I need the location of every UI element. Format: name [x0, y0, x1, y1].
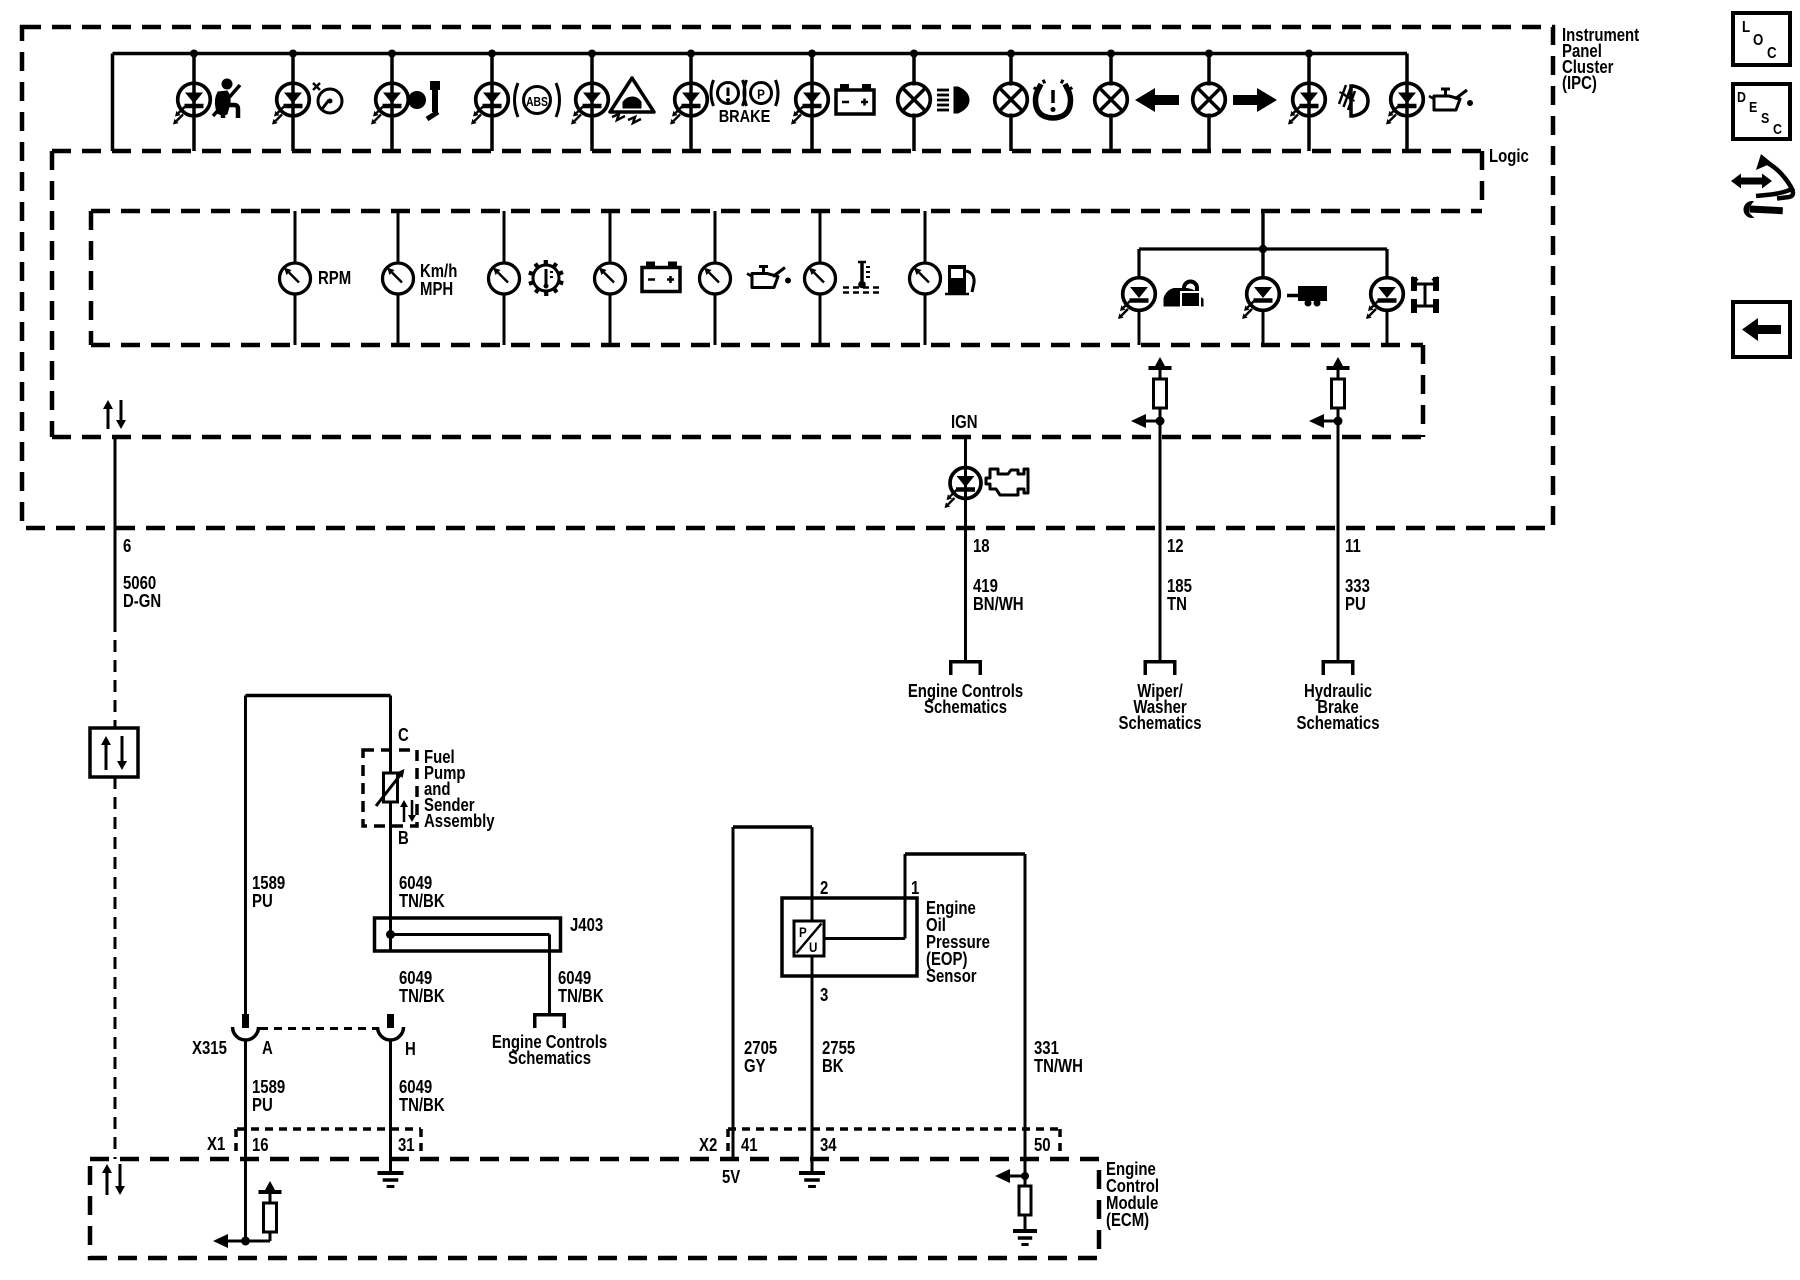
- wire: circuit 2705 GY: [732, 827, 735, 1159]
- svg-text:3: 3: [820, 985, 828, 1006]
- wire: 1589 PU to ECM pin 16: [244, 1041, 247, 1241]
- svg-text:C: C: [398, 725, 409, 746]
- node: pin 50 internal junction with left arrow: [995, 1169, 1029, 1183]
- lamp: right turn indicator bulb: [1193, 50, 1277, 152]
- ECM connector X2 dashed outline: [728, 1129, 1060, 1153]
- engine oil pressure (EOP) sensor box: [782, 898, 917, 976]
- resistor: ECM pull-up on pin 16: [259, 1181, 282, 1241]
- svg-text:1: 1: [911, 878, 919, 899]
- svg-text:12: 12: [1167, 536, 1184, 557]
- variable resistor: fuel level sender: [376, 750, 405, 826]
- svg-text:Sensor: Sensor: [926, 966, 977, 987]
- svg-text:IGN: IGN: [951, 412, 978, 433]
- LOC navigation box: [1733, 13, 1790, 65]
- wire: pin 11 circuit 333 PU: [1337, 421, 1340, 660]
- svg-text:TN/WH: TN/WH: [1034, 1056, 1083, 1077]
- svg-text:TN/BK: TN/BK: [399, 891, 445, 912]
- gauge: voltmeter (battery) gauge: [595, 211, 681, 345]
- svg-text:B: B: [398, 828, 409, 849]
- gauge: oil pressure gauge: [700, 211, 792, 345]
- DESC navigation box: [1733, 84, 1790, 139]
- wire: circuit 1589 PU (left leg): [244, 696, 247, 1015]
- svg-text:31: 31: [398, 1135, 415, 1156]
- wire: dashed continuation of circuit 5060: [114, 620, 117, 728]
- svg-text:A: A: [262, 1038, 273, 1059]
- off-page connector bracket: [1322, 660, 1355, 675]
- node: junction with left arrow: [1309, 414, 1343, 428]
- svg-text:GY: GY: [744, 1056, 766, 1077]
- svg-text:Assembly: Assembly: [424, 811, 495, 832]
- svg-text:P: P: [757, 86, 765, 102]
- off-page destination label: [908, 681, 1023, 718]
- off-page destination label: [1119, 681, 1202, 734]
- sender up/down arrows: [400, 800, 416, 822]
- Instrument Panel Cluster (IPC) dashed boundary box: [22, 27, 1553, 528]
- lamp: traction control indicator lamp: [571, 50, 654, 152]
- svg-text:C: C: [1767, 45, 1777, 62]
- wire: fuel sender loop top: [246, 694, 391, 698]
- gauge: speedometer gauge (Km/h MPH): [383, 211, 414, 345]
- svg-text:MPH: MPH: [420, 279, 453, 300]
- lamp: malfunction indicator (MIL) lamp: [945, 437, 1029, 660]
- wire: pin 12 circuit 185 TN: [1159, 421, 1162, 660]
- svg-text:X315: X315: [192, 1038, 227, 1059]
- svg-text:D: D: [1737, 89, 1746, 105]
- ground: ECM pin 31 ground: [378, 1173, 404, 1187]
- wire: sensor signal feed down to sensor: [811, 827, 814, 921]
- resistor: IPC driver for pin 12: [1149, 357, 1172, 421]
- svg-text:U: U: [809, 939, 817, 955]
- svg-text:5V: 5V: [722, 1167, 740, 1188]
- svg-text:ABS: ABS: [526, 96, 548, 109]
- svg-text:Schematics: Schematics: [1297, 713, 1380, 734]
- inline connector X315 pin H: [378, 1014, 404, 1040]
- svg-text:L: L: [1742, 19, 1750, 36]
- EOP sensor label: [926, 898, 990, 987]
- lamp: left turn indicator bulb: [1095, 50, 1179, 152]
- lamp: cruise/speed warning indicator lamp: [272, 50, 342, 152]
- svg-text:TN/BK: TN/BK: [558, 986, 604, 1007]
- ground: ECM internal ground: [1013, 1231, 1037, 1245]
- wire: bus left drop: [111, 54, 115, 152]
- svg-text:BRAKE: BRAKE: [719, 107, 771, 127]
- lamp: driveline/AWD indicator lamp: [1366, 277, 1439, 345]
- svg-text:TN/BK: TN/BK: [399, 1095, 445, 1116]
- fuel pump assembly label: [424, 747, 495, 832]
- lamp: oil pressure indicator lamp: [1386, 54, 1473, 152]
- off-page connector bracket: [533, 1013, 566, 1028]
- svg-text:E: E: [1749, 99, 1757, 115]
- svg-text:O: O: [1753, 32, 1763, 49]
- lamp: seat belt indicator lamp: [173, 50, 240, 152]
- resistor: ECM pull-up on pin 50: [1019, 1176, 1031, 1229]
- Engine Control Module (ECM) dashed boundary box: [90, 1159, 1099, 1258]
- svg-text:BK: BK: [822, 1056, 844, 1077]
- inner gauges dashed box outline: [91, 209, 1482, 214]
- lamp: airbag indicator lamp: [371, 50, 440, 152]
- wire: 6049 TN/BK to ECM pin 31: [389, 1041, 392, 1171]
- gauge: coolant temperature gauge: [805, 211, 880, 345]
- lamp: high beam indicator bulb: [898, 50, 969, 152]
- P/U transducer symbol: [794, 921, 824, 956]
- svg-text:P: P: [799, 924, 807, 940]
- gauge: fuel level gauge: [910, 211, 975, 345]
- lamp: security indicator lamp: [1118, 278, 1203, 345]
- svg-text:41: 41: [741, 1135, 758, 1156]
- svg-text:11: 11: [1345, 536, 1361, 557]
- svg-text:(IPC): (IPC): [1562, 73, 1597, 94]
- off-page connector bracket: [949, 660, 982, 675]
- node: junction with left arrow: [1131, 414, 1165, 428]
- svg-text:X1: X1: [207, 1134, 225, 1155]
- splice pack J403: [375, 918, 561, 1013]
- svg-text:C: C: [1773, 121, 1782, 137]
- svg-text:H: H: [405, 1039, 416, 1060]
- ground: ECM pin 34 ground: [799, 1173, 825, 1187]
- IPC serial data up/down arrows: [103, 400, 126, 429]
- lamp: tire pressure (TPMS) indicator bulb: [995, 50, 1073, 152]
- svg-text:PU: PU: [252, 1095, 273, 1116]
- wire: ECM internal to fuel level input: [213, 1234, 270, 1248]
- ECM label: [1106, 1159, 1159, 1231]
- svg-text:X2: X2: [699, 1135, 717, 1156]
- diagnostic navigation glyph (arrows and wrench): [1731, 154, 1793, 217]
- svg-text:D-GN: D-GN: [123, 591, 161, 612]
- svg-text:RPM: RPM: [318, 268, 351, 289]
- lamp: charge (battery) indicator lamp: [791, 50, 874, 152]
- wire: feed to right indicator trio: [1139, 211, 1387, 278]
- wire: 5V reference loop top: [733, 825, 812, 829]
- svg-text:Logic: Logic: [1489, 146, 1529, 167]
- svg-text:18: 18: [973, 536, 990, 557]
- wire: dashed continuation to ECM: [114, 777, 117, 1159]
- ECM connector X1 dashed outline: [236, 1129, 421, 1153]
- ECM serial data up/down arrows: [102, 1164, 125, 1195]
- back navigation box with left arrow: [1733, 302, 1790, 357]
- lamp: fog lamp indicator lamp: [1288, 50, 1368, 152]
- svg-text:TN/BK: TN/BK: [399, 986, 445, 1007]
- svg-text:TN: TN: [1167, 594, 1187, 615]
- svg-text:2: 2: [820, 878, 828, 899]
- wire: sensor internal to pin 1: [824, 854, 1025, 1176]
- lamp: ABS indicator lamp: [471, 50, 560, 152]
- svg-text:50: 50: [1034, 1135, 1051, 1156]
- gauge: transmission temperature gauge: [489, 211, 564, 345]
- off-page destination label: [492, 1032, 607, 1069]
- svg-text:6: 6: [123, 536, 131, 557]
- Logic dashed box outline: [52, 149, 1482, 154]
- svg-text:Schematics: Schematics: [508, 1048, 591, 1069]
- fuel pump and sender assembly dashed box: [363, 750, 417, 826]
- off-page connector bracket: [1144, 660, 1177, 675]
- X315 dashed link: [260, 1027, 376, 1030]
- two-way serial data box with up/down arrows: [90, 728, 138, 777]
- svg-text:(ECM): (ECM): [1106, 1210, 1149, 1231]
- lamp: brake warning indicator lamp: [670, 50, 778, 152]
- svg-text:BN/WH: BN/WH: [973, 594, 1024, 615]
- gauge: tachometer gauge (RPM): [280, 211, 311, 345]
- svg-text:Schematics: Schematics: [924, 697, 1007, 718]
- svg-text:PU: PU: [252, 891, 273, 912]
- svg-text:34: 34: [820, 1135, 837, 1156]
- svg-text:PU: PU: [1345, 594, 1366, 615]
- wire: circuit 6049 into splice: [389, 826, 392, 918]
- lamp: trailer indicator lamp: [1242, 278, 1327, 345]
- svg-text:Schematics: Schematics: [1119, 713, 1202, 734]
- wire: pin 6 circuit 5060 D-GN: [114, 437, 117, 620]
- resistor: IPC driver for pin 11: [1327, 357, 1350, 421]
- wire: ignition feed bus: [113, 52, 1408, 56]
- svg-text:J403: J403: [570, 915, 603, 936]
- wire: circuit 2755 BK to ground: [811, 956, 814, 1171]
- svg-text:S: S: [1761, 110, 1769, 126]
- inline connector X315 pin A: [233, 1014, 259, 1040]
- off-page destination label: [1297, 681, 1380, 734]
- svg-text:16: 16: [252, 1135, 269, 1156]
- wire: fuel sender feed (right leg): [389, 696, 392, 751]
